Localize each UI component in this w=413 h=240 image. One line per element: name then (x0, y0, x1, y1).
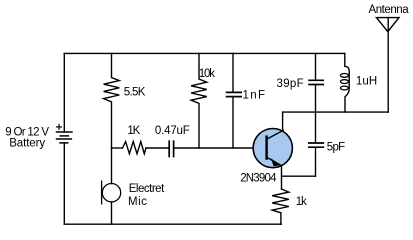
resistor R4 1k (vertical, emitter) (272, 189, 289, 224)
svg-text:5pF: 5pF (327, 142, 345, 154)
svg-text:39pF: 39pF (277, 78, 304, 90)
wire: emitter to 5pF bottom (282, 175, 316, 177)
svg-text:Electret: Electret (129, 183, 165, 195)
transistor Q1 emitter arrow (271, 158, 281, 166)
capacitor C2 1nF top lead (232, 53, 234, 92)
transistor Q1 emitter stroke (267, 157, 282, 165)
antenna symbol (376, 18, 399, 32)
resistor R2 1K (horizontal) (123, 142, 146, 154)
svg-text:Mic: Mic (128, 196, 147, 208)
battery B1 9 Or 12 V (57, 132, 72, 143)
wire: tank bottom rail to antenna column (283, 111, 389, 113)
svg-text:Antenna: Antenna (369, 4, 410, 16)
transistor Q1 base bar (265, 137, 267, 159)
wire: collector lead (282, 112, 284, 130)
wire: 0.47uF to transistor base (174, 147, 267, 149)
svg-text:10k: 10k (199, 68, 216, 80)
svg-text:0.47uF: 0.47uF (155, 125, 190, 137)
capacitor C2 1nF bottom lead (232, 97, 234, 148)
capacitor C5 5pF plates (309, 143, 324, 147)
wire: bottom ground rail (64, 223, 281, 225)
microphone MIC1 diaphragm bar (101, 181, 103, 204)
svg-text:1uH: 1uH (356, 76, 377, 88)
inductor L1 loops (340, 74, 348, 90)
microphone MIC1 electret circle (102, 184, 120, 202)
resistor R3 10k (vertical) (191, 53, 207, 148)
transistor Q1 collector stroke (267, 130, 284, 139)
svg-text:1K: 1K (127, 125, 140, 137)
svg-text:1nF: 1nF (243, 89, 266, 101)
wire: 1K to 0.47uF (146, 147, 169, 149)
capacitor C5 5pF bottom lead (315, 148, 317, 177)
svg-text:5.5K: 5.5K (124, 86, 146, 98)
wire: mic bottom lead (111, 202, 113, 224)
capacitor C4 39pF plates (309, 80, 323, 84)
wire: antenna down lead (387, 18, 389, 113)
wire: top supply rail (64, 52, 345, 54)
capacitor C1 0.47uF (169, 141, 173, 156)
svg-text:2N3904: 2N3904 (240, 173, 277, 185)
transistor Q1 2N3904 circle (253, 129, 292, 168)
wire: emitter lead down (281, 166, 283, 189)
battery plus sign (57, 125, 62, 130)
wire: battery positive lead up left rail (63, 53, 65, 132)
wire: 39pF bottom lead down to tank rail and 5pF (315, 85, 317, 143)
svg-text:Battery: Battery (9, 138, 45, 150)
wire: mic top lead (111, 148, 113, 184)
wire: battery negative lead down left rail (63, 143, 65, 224)
inductor L1 1uH right spine (345, 53, 349, 112)
resistor R1 5.5K (vertical) (104, 53, 120, 148)
wire: base line from 5.5K/mic node to 1K (112, 147, 123, 149)
svg-text:1k: 1k (296, 196, 307, 208)
capacitor C4 39pF top lead (315, 53, 317, 80)
capacitor C2 1nF plates (227, 92, 242, 96)
